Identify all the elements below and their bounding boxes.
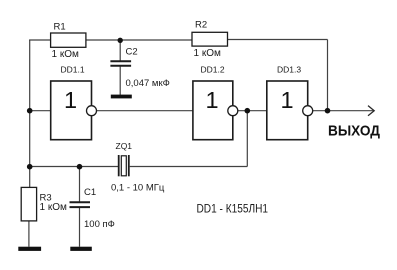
- node junction DD1.2 output: [245, 108, 251, 114]
- wire R1 to C2 node to R2: [86, 39, 192, 41]
- wire C2 top stem: [119, 40, 121, 61]
- wire DD1.3 output to arrow: [313, 110, 374, 112]
- svg-text:DD1 - К155ЛН1: DD1 - К155ЛН1: [197, 202, 269, 216]
- resistor R3: [21, 187, 36, 221]
- wire feedback horizontal crystal right side: [130, 166, 248, 168]
- capacitor C1: [70, 202, 91, 207]
- op-amp U3 gate DD1.3: [267, 81, 313, 140]
- svg-text:0,047 мкФ: 0,047 мкФ: [126, 78, 170, 89]
- wire feedback horizontal crystal left side: [29, 166, 118, 168]
- svg-text:R2: R2: [195, 20, 207, 31]
- svg-text:100 пФ: 100 пФ: [84, 219, 115, 230]
- ground below C2: [111, 95, 132, 99]
- op-amp U1 gate DD1.1: [51, 81, 97, 140]
- wire C1 bottom stem to ground: [79, 208, 81, 247]
- svg-text:ВЫХОД: ВЫХОД: [328, 123, 380, 140]
- node junction C1 top: [77, 164, 83, 170]
- wire top row left to R1: [29, 39, 50, 41]
- wire R3 bottom stem to ground: [28, 221, 30, 247]
- capacitor C2: [110, 61, 131, 66]
- resistor R1: [51, 33, 86, 47]
- arrowhead output: [368, 106, 374, 116]
- svg-text:1: 1: [64, 87, 77, 113]
- svg-text:1 кОм: 1 кОм: [52, 49, 79, 60]
- wire DD1.1 input: [30, 110, 51, 112]
- node junction bottom bus left: [27, 164, 33, 170]
- wire C1 top stem: [79, 167, 81, 202]
- ground below C1: [70, 247, 92, 251]
- wire feedback vertical from output node down: [246, 111, 248, 167]
- wire R2 right to corner: [228, 39, 328, 41]
- wire DD1.1 output to DD1.2 input: [97, 110, 193, 112]
- svg-text:1 кОм: 1 кОм: [194, 48, 221, 59]
- svg-text:1: 1: [280, 87, 293, 113]
- wire DD1.2 output to DD1.3 input: [238, 110, 267, 112]
- svg-text:0,1 - 10 МГц: 0,1 - 10 МГц: [111, 183, 165, 194]
- node junction R1-R2-C2: [118, 38, 123, 43]
- svg-text:DD1.2: DD1.2: [201, 65, 225, 75]
- svg-text:DD1.3: DD1.3: [277, 65, 301, 75]
- node junction DD1.3 output: [325, 108, 331, 114]
- svg-text:DD1.1: DD1.1: [61, 65, 85, 75]
- crystal ZQ1: [119, 155, 129, 176]
- svg-text:C1: C1: [84, 187, 96, 198]
- svg-text:R1: R1: [54, 22, 66, 33]
- wire vertical from R2 corner down to output node: [327, 40, 329, 111]
- op-amp U2 gate DD1.2: [193, 81, 238, 140]
- wire C2 bottom stem to ground: [119, 67, 121, 96]
- node junction DD1.1 input: [27, 108, 33, 114]
- svg-text:1: 1: [205, 87, 218, 113]
- wire left vertical bus: [29, 40, 31, 187]
- svg-text:1 кОм: 1 кОм: [40, 202, 67, 213]
- svg-text:ZQ1: ZQ1: [116, 141, 133, 151]
- svg-text:C2: C2: [126, 47, 138, 58]
- ground below R3: [18, 247, 41, 251]
- resistor R2: [192, 32, 228, 46]
